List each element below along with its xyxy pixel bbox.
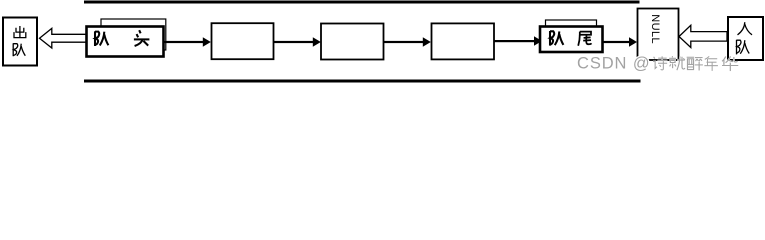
node box 2 bbox=[321, 24, 384, 60]
queue-tail front card 队尾 bbox=[540, 27, 603, 53]
watermark glyph 就 bbox=[669, 56, 685, 70]
label 尾 (of 队尾) bbox=[578, 32, 591, 46]
node box 1 bbox=[212, 23, 274, 59]
label 入 (in enqueue box) bbox=[738, 22, 753, 35]
box 出队 (dequeue) bbox=[3, 18, 37, 66]
top rail line bbox=[84, 1, 640, 4]
arrow 3 (node2 to node3) bbox=[384, 37, 431, 46]
bottom rail line bbox=[84, 80, 641, 83]
hollow arrow A (dequeue direction) bbox=[40, 28, 87, 48]
label 队 (of 队尾) bbox=[550, 31, 563, 46]
watermark glyph 年 bbox=[704, 56, 718, 71]
queue-head back card bbox=[101, 19, 166, 50]
svg-text:NULL: NULL bbox=[649, 14, 661, 44]
arrow 4 (node3 to tail) bbox=[495, 36, 543, 45]
label NULL (rotated) bbox=[649, 14, 661, 44]
label 队 (of 队头) bbox=[95, 31, 108, 46]
arrow 1 (head to node1) bbox=[164, 37, 211, 46]
NULL terminator box bbox=[638, 9, 679, 61]
hollow arrow B (enqueue direction) bbox=[679, 25, 727, 47]
arrow 2 (node1 to node2) bbox=[274, 37, 321, 46]
queue-head front card 队头 bbox=[87, 27, 164, 57]
label 出 (in dequeue box) bbox=[14, 26, 26, 38]
watermark glyph 醉 bbox=[687, 57, 703, 70]
watermark glyph 华 bbox=[722, 56, 738, 71]
queue-tail back card bbox=[546, 20, 597, 49]
svg-text:CSDN @: CSDN @ bbox=[577, 55, 651, 73]
label 头 (of 队头) bbox=[134, 30, 150, 46]
node box 3 bbox=[432, 23, 495, 59]
label 队 (in enqueue box) bbox=[737, 40, 750, 55]
box 入队 (enqueue) bbox=[728, 17, 763, 60]
watermark CSDN @ bbox=[577, 55, 651, 73]
label 队 (in dequeue box) bbox=[13, 43, 25, 56]
arrow 5 (tail to NULL) bbox=[604, 37, 638, 46]
